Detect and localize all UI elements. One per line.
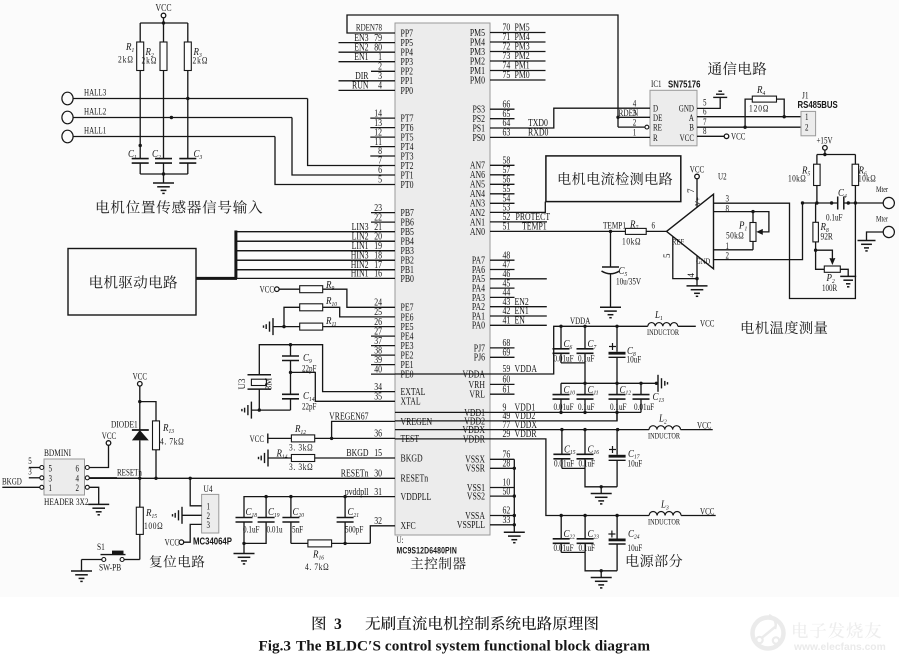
pin XTAL (35) of U1 — [374, 391, 420, 407]
ground (U4 pin2) — [181, 507, 183, 524]
net BKGD stub — [2, 477, 40, 488]
svg-text:0.1uF: 0.1uF — [579, 458, 596, 468]
resistor R7 10k — [622, 219, 667, 247]
IC U4 MC34064P — [193, 483, 232, 547]
potentiometer P2 100R — [816, 250, 849, 293]
meter terminal Mter1 — [876, 185, 894, 208]
svg-text:HALL1: HALL1 — [84, 126, 106, 136]
svg-text:4. 7kΩ: 4. 7kΩ — [160, 436, 184, 447]
capacitor C8 10uF — [609, 326, 642, 383]
pin PT0 (5) of U1 — [378, 174, 414, 190]
svg-text:1: 1 — [49, 483, 53, 493]
ground (C18) — [234, 553, 255, 555]
wire U2 pin1 — [714, 241, 754, 251]
pin VREGEN () of U1 — [329, 411, 432, 427]
svg-text:5nF: 5nF — [292, 525, 304, 535]
svg-text:BKGD: BKGD — [346, 447, 369, 458]
svg-text:Mter: Mter — [876, 215, 889, 224]
pin PP0 (4) of U1 — [339, 80, 414, 96]
IC U1 MC9S12D6480PIN main controller — [395, 23, 490, 535]
inductor L1 — [647, 309, 714, 337]
svg-text:PS0: PS0 — [472, 132, 485, 143]
svg-text:VCC: VCC — [133, 372, 147, 382]
pin PJ7 (68) of U1 — [474, 337, 515, 353]
svg-text:HALL3: HALL3 — [84, 88, 106, 98]
svg-text:3: 3 — [28, 466, 32, 476]
svg-text:DE: DE — [653, 113, 662, 123]
svg-text:0.01uF: 0.01uF — [554, 402, 574, 412]
wire cap bottom rail — [140, 173, 188, 175]
svg-text:U2: U2 — [718, 172, 727, 182]
pin VRH (60) of U1 — [469, 374, 515, 390]
pin PS1 (64) of U1 — [472, 117, 548, 133]
potentiometer P1 50k — [726, 210, 756, 250]
wire crystal ground rail — [251, 409, 290, 411]
svg-text:www.elecfans.com: www.elecfans.com — [793, 642, 886, 653]
label reset circuit — [150, 555, 205, 568]
svg-text:HEADER 3X2: HEADER 3X2 — [44, 496, 89, 507]
svg-text:4. 7kΩ: 4. 7kΩ — [305, 561, 329, 572]
wire hall pullup top rail — [140, 22, 188, 24]
IC IC1 SN75176 — [650, 79, 700, 146]
pin RESETn (30) of U1 — [341, 468, 429, 484]
ground (BDMINI pin2) — [88, 503, 109, 505]
wire TXD0 to D pin4 — [490, 98, 650, 128]
svg-text:VRL: VRL — [469, 389, 485, 400]
svg-text:5: 5 — [662, 253, 672, 258]
svg-text:3: 3 — [726, 194, 730, 204]
meter terminal Mter2 — [867, 215, 895, 241]
svg-text:AN0: AN0 — [470, 226, 486, 237]
block motor drive circuit — [68, 249, 196, 316]
pin VSS1 (10) of U1 — [467, 477, 511, 493]
port HALL1 — [62, 126, 275, 143]
svg-text:VDDA: VDDA — [515, 363, 538, 374]
pin VSS2 (50) of U1 — [467, 485, 511, 501]
pin PS0 (63) of U1 — [472, 127, 548, 143]
svg-text:MC34064P: MC34064P — [193, 536, 232, 547]
svg-text:31: 31 — [374, 486, 382, 497]
resistor R13 4.7k — [140, 402, 184, 480]
pin AN0 (51) of U1 — [470, 221, 547, 237]
svg-text:U4: U4 — [204, 483, 214, 494]
svg-text:VCC: VCC — [250, 434, 264, 444]
resistor R15 100 — [136, 478, 163, 559]
port HALL3 — [62, 88, 308, 105]
pin VDDX (77) of U1 — [462, 419, 537, 435]
capacitor C1 — [128, 148, 149, 174]
wire U2 pin5 REF — [673, 236, 697, 278]
capacitor C9 22pF — [282, 345, 317, 374]
resistor R1 2k — [118, 23, 144, 159]
svg-text:XTAL: XTAL — [401, 396, 421, 407]
pin PP1 (3) of U1 — [339, 70, 414, 86]
pin PA4 (45) of U1 — [472, 277, 515, 293]
svg-text:50kΩ: 50kΩ — [726, 230, 744, 241]
svg-text:RS485BUS: RS485BUS — [798, 99, 838, 110]
ground (L2 caps) — [591, 493, 612, 495]
svg-text:6: 6 — [652, 221, 656, 231]
svg-text:8M: 8M — [264, 378, 274, 391]
capacitor C6 0.01uF — [553, 326, 574, 363]
svg-text:A: A — [689, 113, 694, 123]
svg-text:4: 4 — [686, 273, 696, 278]
pin PP5 (79) of U1 — [339, 32, 414, 48]
svg-text:DIODE1: DIODE1 — [111, 419, 138, 430]
resistor R14 3.3k — [259, 448, 396, 472]
power flag VCC (R9) — [260, 284, 280, 294]
wire U4 pin1 to RESETn — [190, 478, 201, 506]
wire VSS pins to ground bundle — [490, 458, 514, 460]
wire TEMP1 net — [490, 230, 625, 232]
svg-text:0.01uF: 0.01uF — [634, 402, 654, 412]
wire RXD0 to R pin1 — [490, 127, 650, 137]
svg-text:3: 3 — [334, 616, 342, 633]
wire A pin6 to J1 — [697, 107, 801, 119]
wire drive bus branch — [236, 269, 395, 271]
wire BDMINI pin4 to RESETn — [89, 477, 117, 479]
wire BDMINI pin6 to VCC — [89, 431, 116, 468]
svg-text:36: 36 — [374, 428, 382, 439]
junction diode-R13 — [138, 400, 141, 403]
svg-text:0.1uF: 0.1uF — [610, 402, 627, 412]
pin PA0 (41) of U1 — [472, 315, 547, 331]
svg-text:VCC: VCC — [260, 284, 274, 294]
svg-text:3: 3 — [49, 474, 53, 484]
svg-text:40: 40 — [374, 363, 382, 374]
pin PP4 (80) of U1 — [339, 41, 414, 57]
svg-text:BKGD: BKGD — [2, 477, 22, 487]
svg-text:2: 2 — [805, 123, 809, 133]
svg-text:4: 4 — [76, 474, 80, 484]
wire U2 pin3 — [714, 194, 856, 299]
svg-text:2: 2 — [633, 118, 637, 128]
svg-text:10kΩ: 10kΩ — [858, 173, 876, 184]
svg-text:10uF: 10uF — [628, 543, 643, 553]
capacitor C21 500pF — [337, 497, 364, 544]
pin AN5 (56) of U1 — [470, 174, 515, 190]
wire BDMINI pin5 stub — [28, 456, 40, 467]
wire HALL2 to PT1 — [292, 118, 395, 176]
svg-text:0.1uF: 0.1uF — [578, 354, 595, 364]
pin VDD2 (49) of U1 — [464, 410, 535, 426]
svg-text:VCC: VCC — [165, 538, 179, 548]
connector BDMINI HEADER 3X2 — [44, 447, 89, 507]
wire C6-C7 bottom rail — [561, 362, 585, 364]
pin PT4 (11) of U1 — [370, 136, 414, 152]
net pvddpll rail — [244, 497, 395, 518]
pin PM4 (71) of U1 — [470, 31, 546, 47]
port HALL2 — [62, 107, 292, 124]
pin PE5 (26) of U1 — [374, 316, 414, 332]
pin PT2 (7) of U1 — [378, 155, 413, 171]
net VREGEN tap — [332, 421, 395, 438]
wire RE pin2 (inverting) — [618, 117, 649, 129]
pin PE3 (37) of U1 — [371, 335, 414, 351]
wire drive bus branch — [236, 240, 395, 242]
svg-text:5: 5 — [49, 464, 53, 474]
ground (R11) — [272, 318, 274, 335]
wire HALL3 to PT2 — [308, 99, 395, 166]
svg-text:RE: RE — [653, 123, 662, 133]
pin PE0 (40) of U1 — [371, 363, 414, 379]
pin PJ6 (69) of U1 — [474, 347, 515, 363]
pin VSSPLL (33) of U1 — [457, 514, 511, 530]
svg-text:4: 4 — [633, 98, 637, 108]
capacitor C11 0.1uF — [577, 383, 599, 412]
pin PP3 (1) of U1 — [339, 51, 414, 67]
pin circle (BDMINI left) — [40, 476, 44, 480]
diode DIODE1 — [111, 402, 149, 480]
net VDDX rail — [395, 429, 649, 431]
wire HALL1 to PT0 — [275, 137, 395, 185]
svg-text:22pF: 22pF — [302, 402, 317, 412]
power rail VCC (hall pullups) — [155, 2, 171, 25]
wire C15-C16-C17 ground rail — [562, 467, 585, 469]
block motor current detection circuit — [546, 156, 681, 202]
pin PE7 (24) of U1 — [374, 297, 414, 313]
ground (U2) — [687, 285, 708, 287]
svg-text:0.01uF: 0.01uF — [554, 543, 574, 553]
capacitor C12 0.1uF — [609, 383, 631, 421]
pin PB1 (17) of U1 — [236, 259, 414, 275]
svg-text:0.01u: 0.01u — [267, 525, 283, 535]
wire VCC pin8 — [697, 126, 745, 142]
pin PT1 (6) of U1 — [378, 164, 413, 180]
capacitor C2 — [152, 148, 172, 174]
capacitor C22 0.01uF — [553, 516, 575, 554]
svg-text:2kΩ: 2kΩ — [142, 55, 158, 66]
pin PM3 (72) of U1 — [470, 41, 546, 57]
pin VDD1 (9) of U1 — [464, 402, 535, 418]
capacitor C7 0.1uF — [577, 326, 598, 363]
svg-text:2kΩ: 2kΩ — [193, 55, 209, 66]
wire U4 pin2 to ground — [182, 514, 202, 516]
svg-text:PB0: PB0 — [401, 273, 415, 284]
pin AN6 (57) of U1 — [470, 164, 515, 180]
pin AN1 (52) of U1 — [470, 211, 551, 227]
svg-text:R: R — [653, 133, 658, 143]
resistor R8 92R — [813, 203, 833, 252]
capacitor C17 10uF — [609, 430, 643, 487]
svg-text:5: 5 — [28, 456, 32, 466]
pin PE4 (27) of U1 — [371, 325, 414, 341]
wire RESETn net — [89, 477, 395, 479]
svg-text:15: 15 — [374, 447, 382, 458]
wire U2 pin2 — [714, 201, 805, 261]
pin circle (BDMINI left) — [40, 485, 44, 489]
wire drive bus branch — [236, 259, 395, 261]
svg-text:61: 61 — [503, 383, 511, 394]
svg-text:The BLDC′S control system func: The BLDC′S control system functional blo… — [296, 637, 650, 654]
net VDD1-cap rail (row2 top) — [561, 382, 658, 384]
wire B pin7 to J1 — [697, 117, 801, 129]
capacitor C3 — [179, 148, 202, 174]
svg-text:MC9S12D6480PIN: MC9S12D6480PIN — [397, 546, 458, 556]
svg-text:SW-PB: SW-PB — [99, 562, 121, 573]
wire AN2 to detection block — [490, 202, 545, 213]
svg-text:EN1: EN1 — [354, 51, 368, 62]
pin PM1 (74) of U1 — [470, 60, 546, 76]
svg-text:INDUCTOR: INDUCTOR — [647, 328, 679, 337]
svg-text:VSSR: VSSR — [466, 463, 486, 474]
pin circle (BDMINI right) — [85, 466, 89, 470]
svg-text:Mter: Mter — [876, 185, 889, 194]
ground (crystal) — [250, 402, 252, 419]
svg-text:BDMINI: BDMINI — [44, 447, 71, 458]
ground (P2) — [840, 275, 856, 277]
capacitor C5 10u/35V — [602, 231, 642, 307]
svg-text:+15V: +15V — [816, 136, 832, 146]
power flag VCC (U2) — [690, 165, 704, 208]
svg-text:4: 4 — [378, 80, 382, 91]
capacitor C20 5nF — [282, 497, 304, 544]
svg-text:0.1uF: 0.1uF — [579, 543, 596, 553]
junction hall2-R2 — [170, 116, 173, 119]
inductor L3 — [648, 499, 716, 527]
wire EXTAL net top — [259, 345, 395, 392]
svg-text:120Ω: 120Ω — [749, 103, 769, 114]
capacitor C10 0.01uF — [553, 383, 575, 412]
pin PT7 (14) of U1 — [370, 107, 414, 123]
resistor R10 — [284, 295, 395, 326]
pin circle (BDMINI left) — [40, 466, 44, 470]
svg-text:S1: S1 — [97, 541, 105, 552]
pin PM5 (70) of U1 — [470, 22, 546, 38]
svg-text:VSS2: VSS2 — [467, 491, 485, 502]
pin PT6 (13) of U1 — [370, 117, 414, 133]
svg-text:INDUCTOR: INDUCTOR — [648, 518, 680, 527]
pin PA6 (47) of U1 — [472, 259, 515, 275]
svg-text:100Ω: 100Ω — [144, 520, 163, 531]
svg-text:PM0: PM0 — [470, 74, 486, 85]
resistor R9 — [279, 279, 395, 307]
svg-text:IC1: IC1 — [651, 79, 662, 89]
pin VDDR (29) of U1 — [463, 428, 537, 444]
wire R5-C4 net — [803, 202, 838, 204]
svg-text:REF: REF — [672, 237, 684, 247]
svg-text:RESETn: RESETn — [341, 468, 369, 479]
wire +15V rail — [817, 154, 856, 156]
svg-text:VCC: VCC — [700, 318, 714, 328]
svg-text:92R: 92R — [821, 231, 834, 242]
svg-text:0.01uF: 0.01uF — [554, 458, 574, 468]
pin PE6 (25) of U1 — [374, 306, 414, 322]
pin PP7 () of U1 — [401, 27, 414, 38]
svg-text:PJ6: PJ6 — [474, 352, 486, 363]
svg-text:2: 2 — [76, 483, 80, 493]
svg-text:3. 3kΩ: 3. 3kΩ — [289, 441, 313, 452]
capacitor C18 0.1uF — [236, 506, 260, 553]
wire drive bus branch — [236, 250, 395, 252]
ground (SN75176 pin5, up) — [713, 96, 727, 98]
pin PP2 (2) of U1 — [371, 61, 413, 77]
svg-text:10uF: 10uF — [628, 458, 643, 468]
svg-text:VREGEN67: VREGEN67 — [329, 411, 369, 422]
svg-text:RDEN78: RDEN78 — [356, 23, 382, 33]
wire VDD1 rail — [395, 411, 641, 413]
pin PM0 (75) of U1 — [470, 69, 546, 85]
pin circle (BDMINI right) — [85, 485, 89, 489]
capacitor C16 0.1uF — [577, 430, 599, 469]
svg-text:TEMP1: TEMP1 — [603, 221, 626, 231]
pin AN4 (55) of U1 — [470, 183, 515, 199]
svg-text:32: 32 — [374, 515, 382, 526]
svg-text:GND: GND — [696, 256, 711, 266]
pin PA1 (42) of U1 — [472, 305, 547, 321]
svg-text:VCC: VCC — [155, 2, 171, 13]
wire RDEN to DE pin3 — [616, 108, 650, 119]
capacitor C14 22pF — [282, 372, 317, 411]
wire GND pin5 — [697, 97, 720, 108]
inductor L2 — [648, 413, 713, 441]
svg-text:pvddpll: pvddpll — [345, 486, 369, 497]
svg-text:HALL2: HALL2 — [84, 107, 106, 117]
pin VSSR (28) of U1 — [466, 458, 511, 474]
label communication circuit — [708, 62, 766, 76]
pin BKGD (15) of U1 — [346, 447, 423, 463]
pin circle (BDMINI right) — [85, 476, 89, 480]
svg-text:0.01uF: 0.01uF — [554, 354, 574, 364]
resistor R4 120 — [745, 84, 784, 127]
svg-text:VCC: VCC — [690, 165, 704, 175]
net RDEN (PP7 to SN75176) — [347, 15, 618, 117]
capacitor C24 10uF — [608, 516, 642, 571]
pin PM2 (73) of U1 — [470, 50, 546, 66]
pin AN7 (58) of U1 — [470, 155, 515, 171]
wire C4-R6-Mter net — [844, 202, 883, 204]
svg-text:3: 3 — [207, 520, 211, 530]
svg-text:VSSPLL: VSSPLL — [457, 519, 485, 530]
switch S1 SW-PB — [82, 541, 140, 573]
junction hall1-R1 — [139, 144, 142, 147]
wire C22-C23-C24 ground rail — [561, 551, 585, 553]
pin PE2 (38) of U1 — [371, 344, 413, 360]
svg-text:PT0: PT0 — [401, 179, 414, 190]
pin VSSA (62) of U1 — [465, 505, 510, 521]
pin XFC (32) of U1 — [374, 515, 415, 531]
resistor R6 10k — [852, 155, 876, 205]
pin PB3 (19) of U1 — [236, 240, 414, 256]
ground (Mter2) — [858, 240, 876, 242]
svg-text:10uF: 10uF — [627, 355, 642, 365]
svg-text:10u/35V: 10u/35V — [616, 277, 641, 287]
ground (C5) — [600, 306, 621, 308]
svg-text:0.1uF: 0.1uF — [578, 402, 595, 412]
svg-text:VDDA: VDDA — [570, 316, 590, 326]
pin PE1 (39) of U1 — [371, 354, 413, 370]
wire XFC net — [370, 526, 395, 544]
pin PB2 (18) of U1 — [236, 249, 414, 265]
svg-text:3. 3kΩ: 3. 3kΩ — [289, 461, 313, 472]
svg-text:1: 1 — [805, 112, 809, 122]
pin TEST (36) of U1 — [374, 428, 419, 444]
op-amp U2 — [662, 172, 727, 278]
svg-text:EN: EN — [515, 315, 526, 326]
pin PB5 (21) of U1 — [236, 221, 414, 237]
svg-text:75: 75 — [503, 69, 511, 80]
svg-text:RUN: RUN — [352, 80, 369, 91]
capacitor C15 0.01uF — [553, 430, 575, 469]
svg-text:PM0: PM0 — [515, 69, 531, 80]
ground (L3 caps) — [600, 571, 602, 578]
pin PA7 (48) of U1 — [472, 249, 515, 265]
svg-text:RESETn: RESETn — [401, 473, 429, 484]
ground (VSS) — [504, 531, 525, 533]
svg-text:6: 6 — [76, 464, 80, 474]
resistor R3 2k — [184, 23, 208, 159]
svg-text:7: 7 — [686, 188, 696, 193]
